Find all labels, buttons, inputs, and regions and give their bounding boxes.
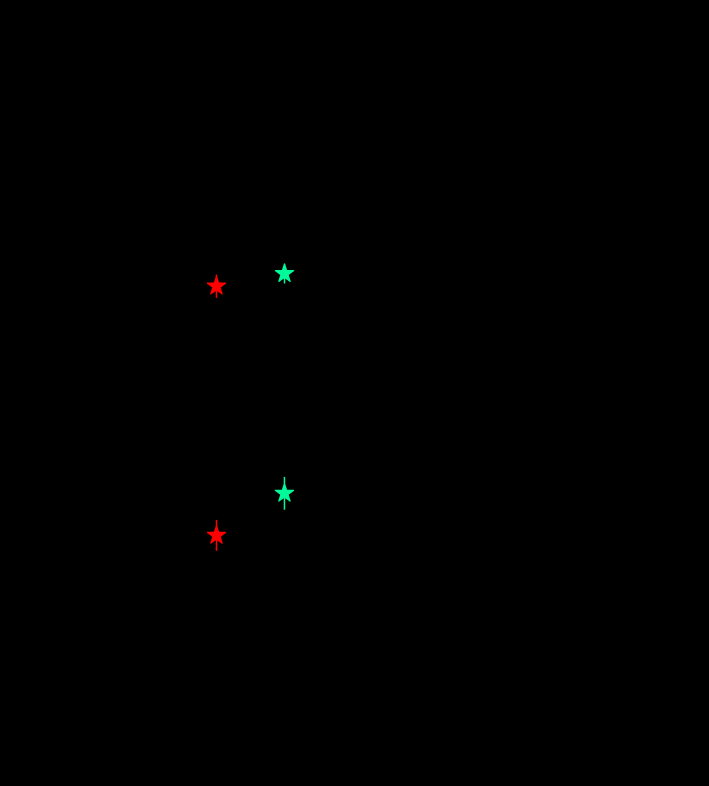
errorbar green point 2 (bottom subplot) [275,477,293,510]
errorbar red point 1 (top subplot) [207,275,225,298]
errorbar red point 2 (bottom subplot) [207,520,225,551]
errorbar green point 1 (top subplot) [275,264,293,284]
